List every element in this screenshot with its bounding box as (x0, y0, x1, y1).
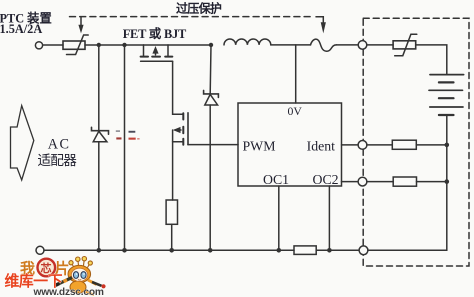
node: top rail at vertical wire (122, 43, 126, 47)
current sense resistor R1 (166, 200, 177, 224)
terminal: AC input top (35, 42, 42, 49)
svg-text:适配器: 适配器 (38, 153, 78, 168)
wire: input terminal to PTC (43, 44, 63, 46)
wire: R2 to pack bottom terminal (316, 249, 359, 251)
wire: Q2 source down to R1 (172, 130, 174, 200)
node: bottom rail at input wire (122, 248, 127, 253)
watermark: mascot (56, 257, 106, 295)
PWM controller U1 (238, 103, 342, 186)
svg-text:OC1: OC1 (263, 172, 289, 187)
node: right rail at OC2 (445, 179, 450, 184)
watermark: 我要芯片 stamp (20, 259, 70, 278)
battery pack dashed enclosure (363, 18, 469, 266)
terminal: OC2 (358, 177, 367, 186)
thermal fuse F1 (311, 39, 337, 51)
zener diode D1 (92, 45, 109, 250)
wire: top rail PTC to inductor node (85, 44, 211, 46)
wire: OC1 pin to bottom rail (278, 186, 280, 250)
svg-text:过压保护: 过压保护 (176, 1, 222, 16)
resistor R4 (OC2) (393, 177, 416, 186)
svg-text:OC2: OC2 (313, 172, 339, 187)
switching MOSFET Q2 (173, 113, 188, 145)
svg-text:0V: 0V (288, 104, 303, 118)
node: top rail at zener D1 (97, 43, 101, 47)
wire: OC2 pin to terminal (342, 181, 359, 183)
svg-text:AC: AC (48, 137, 71, 153)
svg-text:www.dzsc.com: www.dzsc.com (33, 287, 104, 297)
wire: Ident pin to terminal (342, 144, 359, 146)
node: bottom rail at D2 (208, 248, 213, 253)
pass transistor Q1 (FET or BJT) (141, 45, 173, 61)
wire: battery negative down right rail (446, 115, 448, 250)
terminal: AC input bottom (36, 246, 44, 254)
svg-text:Ident: Ident (307, 138, 336, 153)
PTC thermistor RT1 (63, 35, 88, 55)
node: top rail at inductor/diode (209, 43, 213, 47)
terminal: pack bottom (359, 246, 368, 255)
terminal: Ident (358, 141, 367, 150)
wire: Q2 gate to PWM pin (188, 144, 238, 146)
AC adapter arrow (11, 106, 34, 180)
bottom rail left (44, 249, 294, 251)
resistor R3 (Ident) (392, 140, 416, 149)
wire: OC2 pin to bottom rail (328, 186, 330, 250)
wire: 0V pin to output rail (295, 45, 297, 103)
svg-text:1.5A/2A: 1.5A/2A (0, 22, 42, 36)
wire: RT2 to battery (416, 45, 447, 74)
wire: R3 to right rail (416, 144, 447, 146)
vertical wire input rail (124, 45, 126, 250)
battery BT1 (429, 75, 464, 115)
wire: terminal to RT2 (367, 44, 393, 46)
wire: Q1 gate lead down to Q2 drain (173, 61, 183, 114)
terminal: pack + input (358, 41, 367, 50)
zener diode D2 (204, 45, 219, 250)
red watermark dashes (116, 130, 140, 139)
inductor L1 (224, 39, 271, 45)
node: bottom rail at OC1 (277, 248, 282, 253)
node: bottom rail at OC2 (327, 248, 332, 253)
overvoltage arrow left (points at PTC) (78, 17, 83, 33)
svg-text:PWM: PWM (243, 138, 276, 153)
wire: R4 to right rail (417, 181, 447, 183)
wire: fuse to pack terminal (336, 44, 358, 46)
svg-text:芯: 芯 (41, 261, 52, 275)
wire: R1 to bottom rail (171, 224, 173, 250)
wire: terminal to R4 (367, 181, 393, 183)
PTC thermistor RT2 (393, 34, 417, 56)
overvoltage protection dashed line (70, 16, 312, 18)
resistor R2 (bottom rail) (294, 246, 316, 255)
wire: inductor to fuse (271, 44, 311, 46)
overvoltage arrow right (points at fuse) (316, 17, 326, 34)
node: bottom rail at R1 (169, 248, 174, 253)
node: bottom rail at D1 (97, 248, 102, 253)
svg-text:FET 或 BJT: FET 或 BJT (123, 26, 187, 41)
node: right rail at Ident (445, 143, 450, 148)
wire: terminal to R3 (367, 144, 392, 146)
wire: bottom terminal to right rail (368, 249, 447, 251)
